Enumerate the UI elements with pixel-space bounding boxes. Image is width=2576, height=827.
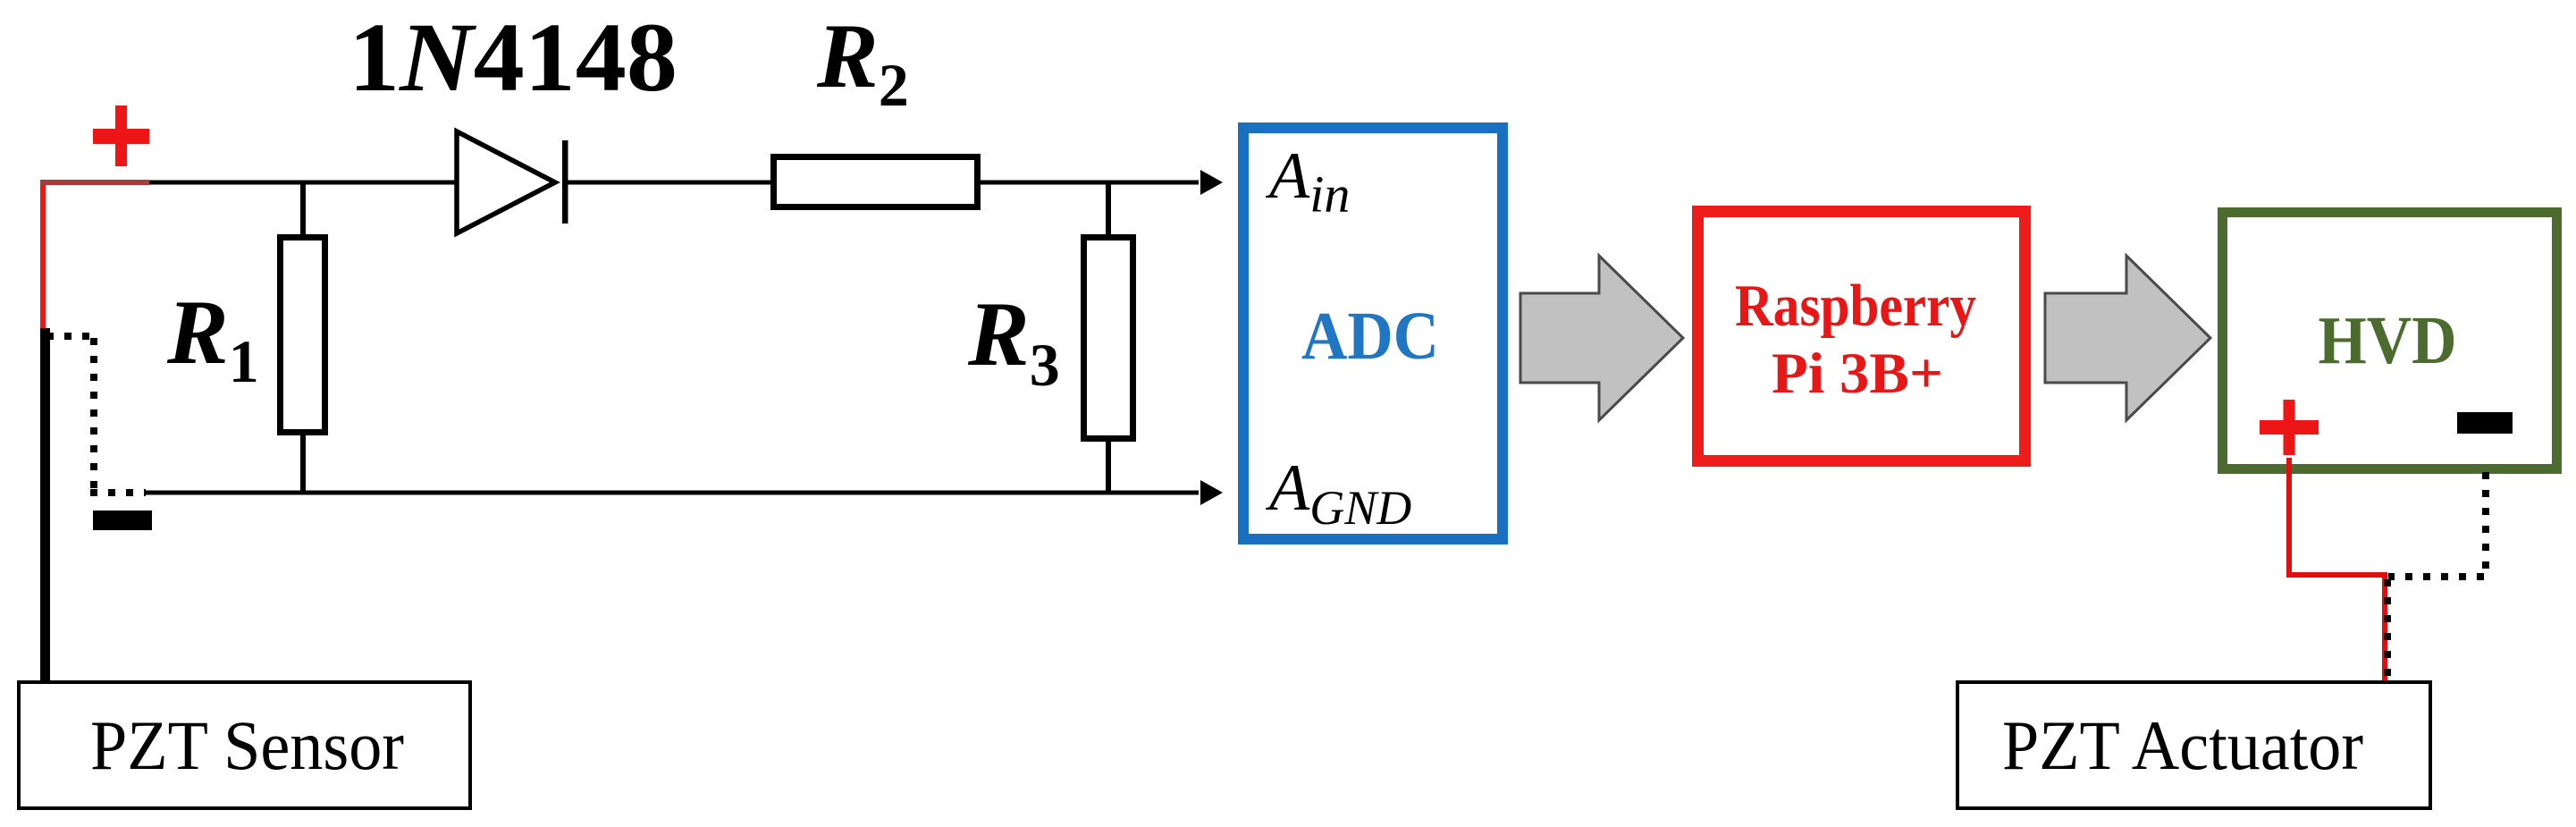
wire red HVD positive to actuator bbox=[2286, 458, 2385, 682]
svg-text:PZT Actuator: PZT Actuator bbox=[2002, 706, 2363, 784]
resistor R2 bbox=[774, 157, 978, 207]
resistor R1 bbox=[281, 238, 325, 433]
wire R3 top stem bbox=[1106, 181, 1111, 238]
PZT Sensor box bbox=[19, 682, 470, 808]
node arrow into A_in bbox=[1200, 170, 1223, 195]
node + terminal (red plus, PZT sensor positive) bbox=[93, 105, 149, 166]
node - terminal (black minus, PZT sensor negative) bbox=[93, 511, 152, 530]
diode D1 bbox=[457, 131, 555, 233]
wire R3 bottom stem bbox=[1106, 439, 1111, 493]
node arrow into A_GND bbox=[1200, 480, 1223, 505]
svg-text:HVD: HVD bbox=[2319, 303, 2457, 378]
wire dotted negative lead (PZT sensor) bbox=[46, 336, 146, 493]
svg-text:Pi 3B+: Pi 3B+ bbox=[1772, 342, 1943, 406]
wire red over black segment (dark red, top-left horizontal) bbox=[40, 180, 149, 185]
svg-text:PZT Sensor: PZT Sensor bbox=[90, 706, 404, 784]
wire thick black sensor lead bbox=[40, 328, 50, 682]
wire bottom rail node GND bbox=[146, 491, 1199, 495]
PZT Actuator box bbox=[1957, 682, 2430, 808]
ADC box U1 bbox=[1243, 128, 1503, 539]
wire red positive lead (vertical) bbox=[40, 180, 46, 330]
node + terminal (HVD output positive) bbox=[2260, 400, 2319, 455]
svg-text:ADC: ADC bbox=[1301, 299, 1439, 374]
svg-text:1N4148: 1N4148 bbox=[349, 3, 678, 112]
HVD box U3 bbox=[2223, 213, 2557, 469]
flow arrow ADC to Raspberry Pi bbox=[1520, 256, 1683, 420]
flow arrow Raspberry Pi to HVD bbox=[2045, 256, 2210, 420]
svg-text:Raspberry: Raspberry bbox=[1735, 273, 1976, 339]
Raspberry Pi box U2 bbox=[1698, 212, 2025, 461]
wire dotted HVD negative to actuator bbox=[2387, 472, 2486, 682]
wire R1 bottom stem bbox=[300, 433, 306, 493]
wire R1 top stem bbox=[300, 181, 306, 238]
node - terminal (HVD output negative) bbox=[2457, 412, 2513, 434]
resistor R3 bbox=[1084, 238, 1133, 439]
wire top rail node A bbox=[41, 181, 1199, 185]
